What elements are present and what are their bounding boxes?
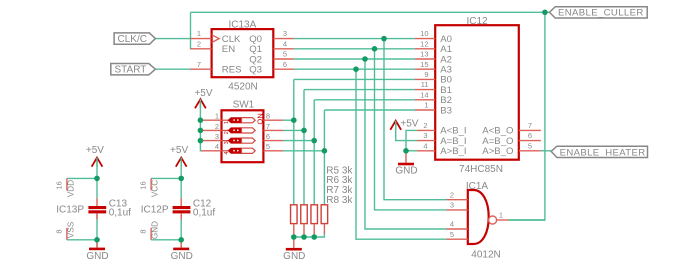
junction A2 branch [362, 56, 368, 62]
svg-text:11: 11 [421, 80, 429, 89]
svg-text:1: 1 [224, 121, 230, 124]
svg-text:2: 2 [224, 131, 230, 134]
svg-text:1: 1 [197, 29, 201, 38]
svg-text:0,1uf: 0,1uf [109, 207, 131, 218]
svg-text:14: 14 [420, 90, 428, 99]
pin 4 Q1 stub [273, 48, 293, 50]
pin 12 A1 stub [415, 48, 435, 50]
svg-text:8: 8 [266, 112, 270, 121]
svg-text:5: 5 [283, 50, 287, 59]
svg-text:2: 2 [450, 190, 454, 199]
op-amp gate IC1A 4012N [447, 181, 509, 261]
wire EN net: vertical drop to IC13A pin2 [191, 12, 193, 49]
pin 6 stub [263, 140, 283, 142]
pin 1 stub [201, 119, 221, 121]
svg-text:4012N: 4012N [471, 250, 500, 261]
svg-text:EN: EN [222, 44, 235, 55]
svg-text:VCC: VCC [151, 180, 160, 197]
svg-text:GND: GND [151, 221, 160, 239]
supply +5V at IC12 cascade [390, 119, 419, 130]
svg-text:GND: GND [171, 251, 193, 262]
svg-text:8: 8 [139, 229, 148, 233]
pin 7 RES stub [191, 68, 212, 70]
svg-text:10: 10 [420, 29, 428, 38]
svg-text:GND: GND [283, 251, 305, 262]
resistor R5 [291, 205, 298, 237]
junction SW1 pin8 / B0 [291, 117, 297, 123]
node ENABLE_HEATER output tag [551, 146, 647, 158]
svg-text:B3: B3 [440, 105, 452, 116]
SW1 DIP switch [201, 100, 283, 163]
pin 15 A3 stub [415, 68, 435, 70]
capacitor C13 [88, 198, 131, 219]
junction R7 bottom [311, 234, 317, 240]
power part IC13P [55, 178, 85, 239]
svg-text:IC13P: IC13P [56, 205, 84, 216]
wire A1 net: vertical to gate pin3 [375, 49, 447, 210]
svg-text:2: 2 [197, 39, 201, 48]
svg-text:1: 1 [499, 211, 503, 220]
ground below resistors [283, 237, 305, 262]
pin 2 stub [201, 129, 221, 131]
junction SW1 pin6 / B2 [311, 138, 317, 144]
junction SW1 pin5 / B3 [322, 148, 328, 154]
wire A3 net: IC13A Q3 to IC12 A3 [294, 68, 415, 70]
svg-text:4: 4 [423, 141, 427, 150]
wire EN net: vertical from culler junction down to gate output [509, 12, 545, 220]
pin 3 Q0 stub [273, 38, 293, 40]
ground at IC12 cascade inputs [395, 151, 417, 177]
pin 7 A&lt;B_O stub [519, 129, 541, 131]
svg-text:VDD: VDD [67, 180, 76, 197]
svg-text:5: 5 [266, 142, 270, 151]
pin 3 stub [201, 140, 221, 142]
wire +5V net to IC12 pin3 (A=B_I) [396, 122, 418, 141]
svg-text:4520N: 4520N [228, 81, 257, 92]
pin 14 B2 stub [415, 99, 435, 101]
capacitor C12 [173, 198, 216, 219]
wire heater net: IC12 pin5 to tag [541, 150, 551, 152]
node ENABLE_CULLER output tag [550, 7, 648, 19]
svg-text:+5V: +5V [86, 145, 104, 156]
svg-text:16: 16 [139, 181, 148, 189]
resistor R8 [321, 205, 328, 234]
pin 7 stub [263, 129, 283, 131]
svg-text:VSS: VSS [67, 221, 76, 238]
svg-text:4: 4 [450, 220, 454, 229]
svg-text:ENABLE_CULLER: ENABLE_CULLER [558, 8, 644, 19]
svg-text:13: 13 [420, 50, 428, 59]
svg-text:5: 5 [450, 230, 454, 239]
pin 4 stub [201, 150, 221, 152]
pin 2 EN stub [191, 48, 212, 50]
IC12 comparator 74HC85N [415, 16, 541, 175]
wire B3 net: SW1 pin5 to IC12 B3 [283, 150, 324, 152]
ground below IC12P [171, 240, 193, 262]
svg-text:6: 6 [266, 132, 270, 141]
svg-text:7: 7 [266, 122, 270, 131]
junction cascade gnd [403, 148, 409, 154]
svg-text:A>B_O: A>B_O [482, 146, 513, 157]
svg-text:3: 3 [423, 131, 427, 140]
pin 5 stub [447, 238, 468, 240]
pin 5 A&gt;B_O stub [519, 150, 541, 152]
svg-text:GND: GND [86, 251, 108, 262]
SW1 switch element 4 [222, 148, 256, 154]
svg-text:5: 5 [528, 141, 532, 150]
pin 6 A=B_O stub [519, 140, 541, 142]
svg-text:4: 4 [224, 152, 230, 155]
clock triangle [212, 35, 220, 43]
resistor R6 [301, 205, 308, 237]
wire A0 net: vertical to gate pin2 [384, 39, 447, 200]
wire B2 net: SW1 pin6 to IC12 B2 [283, 140, 314, 142]
wire IC13P supply branch vertical [96, 159, 98, 199]
junction IC13P top [94, 176, 100, 182]
svg-text:+5V: +5V [194, 88, 212, 99]
pin 8 GND stub [150, 228, 152, 240]
pin 1 output stub [497, 219, 509, 221]
wire culler tag stub [545, 11, 550, 13]
svg-text:ENABLE_HEATER: ENABLE_HEATER [560, 147, 646, 158]
svg-text:GND: GND [395, 165, 417, 176]
pin 8 VSS stub [66, 228, 68, 240]
junction A0 branch [381, 36, 387, 42]
node START input tag [111, 64, 156, 76]
wire START net: START tag to IC13A pin7 [155, 68, 191, 70]
pin 6 Q3 stub [273, 68, 293, 70]
svg-text:CLK/C: CLK/C [118, 34, 147, 45]
wire CLK net: CLK/C tag to IC13A pin1 [155, 38, 191, 40]
svg-text:+5V: +5V [400, 119, 418, 130]
resistor R7 [311, 205, 318, 237]
wire B0 net: SW1 pin8 to IC12 B0 [283, 119, 294, 121]
pin 1 B3 stub [415, 109, 435, 111]
wire IC13P pin8 elbow [67, 239, 97, 241]
wire EN net: top horizontal from EN vertical to culler junction [191, 11, 545, 13]
junction R5 bottom [291, 234, 297, 240]
pin 1 CLK stub [191, 38, 212, 40]
wire IC12P supply branch vertical [180, 159, 182, 199]
pin 4 stub [447, 228, 468, 230]
svg-text:6: 6 [283, 60, 287, 69]
wire A1 net: IC13A Q1 to IC12 A1 [294, 48, 415, 50]
wire A2 net: IC13A Q2 to IC12 A2 [294, 58, 415, 60]
pin 5 Q2 stub [273, 58, 293, 60]
junction SW1 pin7 / B1 [301, 128, 307, 134]
junction at culler tag [542, 10, 548, 16]
svg-text:16: 16 [55, 181, 64, 189]
svg-text:4: 4 [215, 142, 219, 151]
output bubble [489, 216, 497, 224]
wire GND net IC12 pin4 (A>B_I) [406, 150, 417, 152]
svg-text:A>B_I: A>B_I [440, 146, 466, 157]
svg-text:ON: ON [255, 113, 264, 124]
svg-text:IC12P: IC12P [141, 205, 169, 216]
wire GND net IC12 pin2 (A<B_I) [406, 130, 417, 150]
pin 3 A=B_I stub [417, 140, 435, 142]
junction R6 bottom [301, 234, 307, 240]
svg-text:IC13A: IC13A [229, 20, 257, 31]
svg-text:12: 12 [420, 39, 428, 48]
svg-text:+5V: +5V [170, 145, 188, 156]
wire +5V net at SW1 left [200, 100, 201, 151]
pin 4 A&gt;B_I stub [417, 150, 435, 152]
svg-text:3: 3 [224, 141, 230, 144]
wire IC13P pin16 elbow [67, 177, 97, 179]
svg-text:RES: RES [222, 65, 242, 76]
junction A1 branch [372, 46, 378, 52]
svg-text:8: 8 [55, 229, 64, 233]
supply +5V above IC13P [86, 145, 104, 167]
junction +5V to SW1 pin3 [198, 138, 204, 144]
pin 5 stub [263, 150, 283, 152]
svg-text:IC1A: IC1A [466, 181, 489, 192]
wire A2 net: vertical to gate pin4 [365, 59, 447, 229]
svg-text:74HC85N: 74HC85N [459, 164, 503, 175]
svg-text:3: 3 [215, 132, 219, 141]
svg-text:3: 3 [283, 29, 287, 38]
wire resistor bottoms bus [294, 233, 325, 238]
wire A3 net: vertical to gate pin5 [356, 69, 447, 239]
pin 16 VCC stub [150, 178, 152, 190]
svg-text:2: 2 [423, 121, 427, 130]
power part IC12P [139, 178, 169, 239]
junction +5V to SW1 pin1 [198, 117, 204, 123]
IC13A counter 4520N [191, 20, 294, 93]
svg-text:IC12: IC12 [466, 16, 488, 27]
pin 9 B0 stub [415, 78, 435, 80]
pin 3 stub [447, 209, 468, 211]
wire A0 net: IC13A Q0 to IC12 A0 [294, 38, 415, 40]
pin 13 A2 stub [415, 58, 435, 60]
supply +5V at SW1 [194, 88, 212, 108]
svg-text:0,1uf: 0,1uf [193, 207, 215, 218]
junction A3 branch [353, 66, 359, 72]
pin 2 stub [447, 199, 468, 201]
svg-text:1: 1 [215, 112, 219, 121]
wire IC12P pin16 elbow [151, 177, 181, 179]
junction IC13P bottom [94, 237, 100, 243]
SW1 switch element 2 [222, 128, 256, 134]
pin 16 VDD stub [66, 178, 68, 190]
svg-text:7: 7 [528, 121, 532, 130]
svg-text:9: 9 [424, 70, 428, 79]
ground below IC13P [86, 240, 108, 262]
junction IC12P bottom [178, 237, 184, 243]
pin 8 stub [263, 119, 283, 121]
pin 10 A0 stub [415, 38, 435, 40]
supply +5V above IC12P [170, 145, 188, 167]
svg-text:SW1: SW1 [233, 100, 255, 111]
svg-text:2: 2 [215, 122, 219, 131]
svg-text:1: 1 [424, 101, 428, 110]
svg-text:Q3: Q3 [249, 65, 262, 76]
SW1 switch element 3 [222, 138, 256, 144]
svg-text:4: 4 [283, 39, 287, 48]
svg-text:7: 7 [197, 60, 201, 69]
wire B1 net: SW1 pin7 to IC12 B1 [283, 129, 304, 131]
wire gate output to vertical [509, 219, 545, 221]
svg-text:6: 6 [528, 131, 532, 140]
svg-text:15: 15 [420, 60, 428, 69]
pin 11 B1 stub [415, 89, 435, 91]
junction IC12P top [178, 176, 184, 182]
svg-text:START: START [115, 65, 147, 76]
wire IC12P pin8 elbow [151, 239, 181, 241]
svg-text:3: 3 [450, 201, 454, 210]
pin 2 A&lt;B_I stub [417, 129, 435, 131]
junction +5V to SW1 pin2 [198, 128, 204, 134]
SW1 switch element 1 [222, 118, 256, 124]
svg-text:R8 3k: R8 3k [326, 195, 353, 206]
node CLK/C input tag [114, 33, 155, 45]
